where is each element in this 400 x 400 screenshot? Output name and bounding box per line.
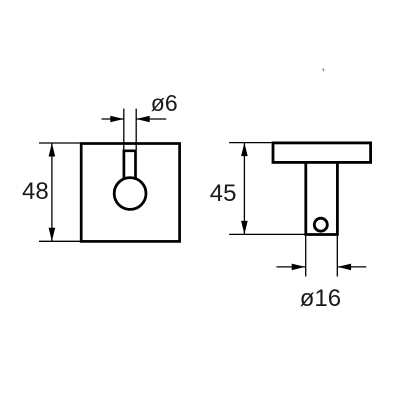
dim o6 dimension line left segment — [102, 118, 124, 120]
dim 48 arrow up — [49, 143, 56, 157]
dim o16 extension line left — [305, 236, 307, 277]
dim 45 arrow up — [241, 143, 248, 157]
dim 48 dimension line — [51, 143, 53, 241]
dim 48 extension line bottom — [39, 240, 80, 242]
front view hook stem — [123, 151, 137, 180]
dim 45 extension line top — [229, 142, 272, 144]
side view mounting plate — [273, 143, 371, 163]
svg-text:ø16: ø16 — [300, 285, 341, 312]
dim o6 arrow right-pointing — [110, 116, 124, 123]
dim o16 arrow right-pointing — [292, 264, 306, 271]
dim o16 arrow left-pointing — [338, 264, 352, 271]
front view hook knob circle — [114, 178, 146, 210]
stray speck artifact — [323, 68, 325, 71]
side view stem body — [306, 162, 338, 234]
svg-text:48: 48 — [22, 178, 49, 205]
svg-text:ø6: ø6 — [151, 90, 178, 116]
dim o6 arrow left-pointing — [136, 116, 150, 123]
dim o6 extension line left — [123, 109, 125, 150]
front view square body — [81, 144, 179, 242]
dim o16 dimension line left segment — [277, 266, 306, 268]
dim o6 extension line right — [135, 109, 137, 150]
dim 48 extension line top — [39, 142, 80, 144]
dim o6 dimension line right segment — [136, 118, 166, 120]
dim 45 arrow down — [241, 221, 248, 235]
dim o16 extension line right — [336, 236, 338, 277]
dim 48 arrow down — [49, 228, 56, 242]
dim o16 dimension line right segment — [338, 266, 367, 268]
side view set-screw hole circle — [314, 218, 327, 231]
dim 45 dimension line — [243, 143, 245, 235]
dim 45 extension line bottom — [229, 233, 305, 235]
svg-text:45: 45 — [210, 180, 237, 207]
